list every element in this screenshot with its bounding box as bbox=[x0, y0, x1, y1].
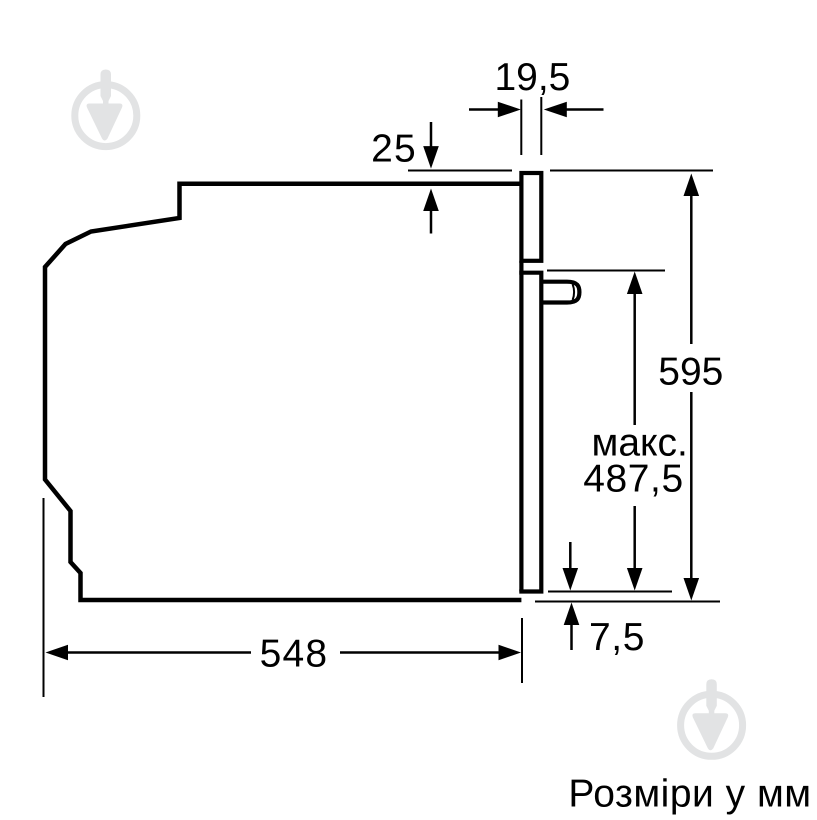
watermark logo top-left (27.ua trowel in circle) bbox=[75, 70, 137, 147]
extension line: handle top level (for макс. 487,5) bbox=[547, 270, 665, 272]
extension line: panel left edge top (for 19,5) bbox=[520, 100, 522, 156]
extension line: panel right edge top (for 19,5) bbox=[540, 97, 542, 155]
svg-text:25: 25 bbox=[371, 128, 417, 171]
watermark logo bottom-right (27.ua trowel in circle) bbox=[681, 679, 743, 756]
svg-text:7,5: 7,5 bbox=[589, 616, 645, 659]
extension line: panel top level (right of panel, for 595) bbox=[550, 170, 713, 172]
dimension 548 horizontal line with arrows bbox=[46, 645, 69, 661]
front panel left edge through notch bbox=[519, 261, 523, 592]
extension line: panel left plane bottom (for 548) bbox=[521, 618, 523, 683]
dimension 19,5 left arrow bbox=[469, 108, 500, 111]
svg-text:548: 548 bbox=[260, 633, 329, 676]
dimension 595 vertical line with arrows bbox=[684, 174, 700, 197]
dimension 7,5 top down arrow bbox=[569, 542, 572, 568]
oven body outline (side profile) bbox=[45, 184, 521, 600]
dimension 7,5 bottom up arrow bbox=[570, 622, 573, 650]
svg-text:595: 595 bbox=[658, 351, 723, 394]
extension line: panel bottom level (for 7,5 and 487,5) bbox=[548, 591, 672, 593]
svg-text:487,5: 487,5 bbox=[583, 458, 684, 501]
front panel lower section bbox=[519, 273, 543, 592]
door handle bbox=[542, 282, 580, 303]
dimension 25 up arrow bbox=[430, 210, 433, 234]
extension line: panel top level (left of panel, for 25) bbox=[408, 170, 512, 172]
svg-text:Розміри у мм: Розміри у мм bbox=[568, 773, 811, 816]
dimension 25 down arrow bbox=[430, 122, 433, 147]
svg-text:19,5: 19,5 bbox=[494, 56, 570, 99]
extension line: left body side (for 548) bbox=[43, 498, 45, 697]
front panel upper section bbox=[521, 173, 541, 261]
dimension макс. 487,5 vertical line with arrows bbox=[627, 272, 643, 295]
dimension 19,5 right arrow bbox=[564, 108, 604, 111]
handle cap inner arc bbox=[573, 284, 575, 300]
extension line: body bottom level (for 7,5 and 595) bbox=[535, 601, 720, 603]
